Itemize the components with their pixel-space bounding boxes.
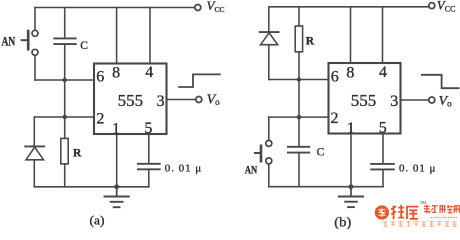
svg-text:5: 5 [144,120,152,137]
wire: pin 3 output (b) [401,99,429,101]
wire: AN bottom to node6 line (a) [34,56,36,81]
svg-text:4: 4 [379,64,387,81]
wire: R top from rail (b) [298,7,300,26]
wire: node 6 line (b) [269,79,329,81]
svg-text:AN: AN [2,34,16,49]
svg-text:8: 8 [346,64,354,81]
wire: C bottom through node6 to node2 (a) [64,44,66,117]
watermark text WeiKu (fake CJK strokes) [391,205,418,219]
wire: R top (a) [64,117,66,138]
wire: node2 down to AN (b) [268,117,270,140]
svg-text:0. 01 μ: 0. 01 μ [399,163,436,175]
watermark slogan row (fake CJK strokes) [383,221,457,226]
diode VD (b) [260,32,279,45]
svg-text:0. 01 μ: 0. 01 μ [165,163,202,175]
junction on node6 (a) [62,78,66,82]
wire: bottom rail (a) [34,186,149,188]
terminal VCC (a) [195,5,201,11]
junction node2 (b) [297,115,301,119]
IC U1 555 (a) [94,64,167,135]
wire: pin 1 (b) [350,134,352,187]
capacitor 0.01u (a) [138,164,160,170]
wire: bottom rail (b) [269,186,383,188]
ground (b) [339,187,363,207]
svg-text:(b): (b) [334,214,351,229]
wire: R bottom (a) [64,164,66,187]
watermark text dianzishichangwang (fake CJK strokes) [424,205,460,214]
wire: diode to bottom rail (a) [33,160,35,187]
resistor R (a) [61,138,68,164]
waveform step-up (a) [179,74,220,87]
wire: VCC rail (a) [35,7,195,9]
wire: pin 8 (a) [116,8,118,64]
resistor R (b) [295,26,302,52]
wire: pin 8 (b) [350,7,352,63]
junction node6 (b) [297,77,301,81]
svg-text:8: 8 [112,64,120,81]
diode VD (a) [25,146,44,159]
watermark logo circle [375,205,389,219]
pushbutton AN (a) [22,30,38,55]
wire: pin 3 output (a) [167,99,196,101]
svg-text:555: 555 [351,91,377,110]
junction bottom rail (a) [114,184,119,189]
svg-text:3: 3 [390,93,398,110]
svg-text:R: R [73,147,82,159]
wire: node 6 line (a) [35,79,94,81]
wire: pin 4 (a) [149,8,151,64]
svg-text:3: 3 [157,93,165,110]
ground (a) [105,187,129,207]
wire: AN drop from rail (a) [34,8,36,31]
svg-text:1: 1 [112,120,120,137]
wire: C bottom (b) [298,153,300,187]
svg-text:6: 6 [331,69,339,86]
svg-text:6: 6 [96,69,104,86]
capacitor 0.01u (b) [371,164,394,170]
svg-text:AN: AN [245,163,258,177]
wire: C top from rail (a) [64,8,66,39]
waveform step-down (b) [422,75,459,88]
wire: pin 1 (a) [116,134,118,187]
terminal VCC (b) [429,3,435,9]
wire: AN bottom to rail (b) [268,164,270,187]
svg-text:5: 5 [379,120,387,137]
wire: diode bottom to node6 (b) [268,45,270,80]
wire: C top (b) [298,117,300,147]
terminal Vo (a) [196,97,202,103]
capacitor C (a) [54,38,75,44]
svg-text:C: C [317,147,325,159]
wire: 0.01u bottom (a) [148,169,150,187]
wire: 0.01u bottom (b) [382,169,384,186]
svg-text:4: 4 [145,64,153,81]
wire: pin 4 (b) [382,7,384,63]
svg-text:TM: TM [420,200,427,205]
svg-text:2: 2 [331,110,339,127]
svg-text:555: 555 [118,91,144,110]
watermark url line [431,216,459,218]
junction on node2 (a) [62,115,66,119]
IC U2 555 (b) [329,63,401,134]
wire: R bottom to node2 (b) [298,52,300,117]
wire: VCC rail (b) [269,6,429,8]
svg-text:(a): (a) [90,212,105,227]
wire: node 2 line (b) [269,116,329,118]
terminal Vo (b) [429,97,435,103]
wire: pin 5 (a) [148,134,150,164]
svg-text:C: C [80,40,88,52]
svg-text:R: R [306,36,315,48]
junction bottom rail (b) [349,184,354,189]
wire: pin 5 (b) [382,134,384,164]
wire: diode top from rail (b) [268,7,270,32]
pushbutton AN (b) [255,140,272,164]
wire: left drop to diode (a) [33,117,35,146]
wire: node 2 line (a) [34,116,94,118]
svg-text:2: 2 [96,110,104,127]
svg-text:1: 1 [347,120,355,137]
capacitor C (b) [288,147,309,153]
